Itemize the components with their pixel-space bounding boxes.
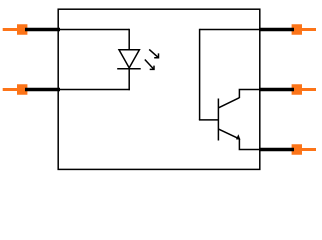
pin 1 wire xyxy=(25,28,60,32)
wire cathode horizontal xyxy=(58,89,130,91)
wire base horizontal xyxy=(199,119,219,121)
wire cathode vertical xyxy=(128,69,130,91)
wire anode vertical xyxy=(128,29,130,50)
LED D1 xyxy=(117,50,141,69)
pin 1 pad xyxy=(17,24,27,35)
wire anode horizontal xyxy=(58,29,129,31)
pin 2 stub xyxy=(3,88,18,91)
pin 6 wire xyxy=(259,28,294,32)
pin 5 wire xyxy=(259,88,294,92)
wire base vertical xyxy=(199,29,201,120)
wire base top horizontal xyxy=(200,29,260,31)
wire collector xyxy=(239,90,259,99)
pin 2 pad xyxy=(17,84,27,95)
pin 4 stub xyxy=(302,148,317,151)
pin 4 pad xyxy=(292,144,302,155)
optocoupler body U1 xyxy=(58,9,260,169)
pin 5 pad xyxy=(292,84,302,95)
pin 6 stub xyxy=(302,28,317,31)
pin 4 wire xyxy=(259,148,294,152)
pin 5 stub xyxy=(302,88,317,91)
pin 2 wire xyxy=(25,88,60,92)
pin 6 pad xyxy=(292,24,302,35)
light arrow 2 xyxy=(145,60,154,70)
wire emitter xyxy=(239,139,259,150)
light arrow 1 xyxy=(149,49,158,57)
pin 1 stub xyxy=(3,28,18,31)
transistor Q1 xyxy=(218,98,240,141)
